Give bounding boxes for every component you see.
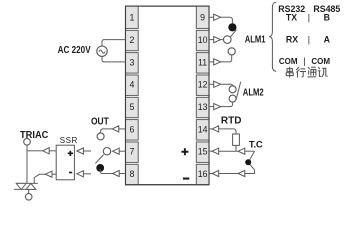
svg-text:1: 1 (130, 13, 135, 23)
svg-text:B: B (324, 12, 330, 22)
wire pin14 (209, 128, 212, 130)
wire pin11 elbow up (221, 55, 232, 62)
wire pin14 to RTD (219, 129, 236, 134)
svg-text:7: 7 (130, 147, 135, 157)
svg-text:11: 11 (198, 57, 207, 67)
svg-text:|: | (303, 56, 305, 66)
wire pin13 (209, 106, 214, 108)
polarity - inside block (183, 178, 189, 180)
arrow pin8 (113, 170, 120, 176)
ALM2 lever (236, 82, 241, 100)
arrow pin12 (214, 81, 221, 87)
terminal strip body U1 (126, 6, 210, 185)
svg-text:2: 2 (130, 35, 135, 45)
pin11 contact circle (228, 48, 235, 55)
arrow pin7 (113, 148, 120, 154)
svg-text:ALM2: ALM2 (243, 86, 264, 97)
pin numbers 9-16 (198, 13, 208, 179)
TC junction V (245, 151, 255, 173)
svg-text:5: 5 (130, 102, 135, 112)
arrow pin11 (214, 59, 221, 65)
arrow SSR minus (77, 171, 84, 177)
wire SSR plus stub (83, 150, 91, 152)
串 (286, 67, 293, 77)
svg-text:RTD: RTD (221, 116, 242, 127)
svg-text:AC 220V: AC 220V (58, 44, 92, 55)
arrow pin6 (112, 126, 119, 132)
wire pin10 (209, 39, 214, 41)
arrow pin9 (214, 14, 221, 20)
ALM1 lever (230, 30, 236, 37)
pin numbers 1-8 (130, 13, 135, 179)
relay contact circle pin7 (103, 148, 110, 155)
SSR plus (68, 151, 73, 156)
chinese label 串行通讯 (serial communication) (286, 67, 327, 77)
svg-text:15: 15 (198, 147, 208, 157)
wire pin15 to TC (219, 150, 239, 152)
wire pin3 (104, 61, 126, 63)
arrow TRIAC branch (43, 148, 50, 154)
wire dot to pin8 arrow (100, 169, 112, 174)
AC source V1 (97, 40, 107, 62)
svg-text:T.C: T.C (249, 140, 263, 151)
arrow pin16 (212, 170, 219, 176)
svg-text:8: 8 (130, 169, 135, 179)
svg-text:RX: RX (286, 34, 298, 44)
ALM2 lower circle (229, 95, 236, 102)
ALM1 pivot dot (228, 23, 236, 31)
wire branch to SSR (49, 150, 56, 152)
svg-text:10: 10 (198, 35, 208, 45)
svg-text:|: | (308, 34, 310, 44)
arrow pin13 (214, 104, 221, 110)
svg-text:A: A (324, 34, 331, 44)
svg-text:12: 12 (198, 80, 208, 90)
svg-text:OUT: OUT (91, 115, 109, 127)
svg-text:6: 6 (130, 124, 135, 134)
wire triac gate (34, 174, 45, 183)
arrow pin10 (214, 37, 221, 43)
wire SSR minus stub (83, 173, 91, 175)
wire arrow to pin8 (119, 173, 125, 175)
wire TRIAC main vertical (26, 145, 28, 183)
arrow pin14 (212, 126, 219, 132)
TC junction dot (245, 159, 251, 165)
wire gate to SSR (52, 173, 56, 175)
通 (308, 67, 316, 77)
triac Q1 symbol (14, 183, 38, 189)
svg-text:16: 16 (198, 169, 208, 179)
wire pin15 (209, 150, 212, 152)
arrow TC upper (238, 148, 245, 154)
svg-text:9: 9 (200, 13, 205, 23)
wire pin16 to TC (219, 173, 239, 175)
svg-text:SSR: SSR (60, 136, 78, 145)
wire pin12 to ALM2 upper (221, 84, 233, 86)
wire pin16 (209, 173, 212, 175)
polarity + inside block (181, 148, 188, 155)
wire pin10 to contact (221, 39, 224, 41)
svg-text:|: | (308, 12, 310, 22)
svg-text:3: 3 (130, 57, 135, 67)
arrow SSR plus (77, 148, 84, 154)
wire arrow to pin6 (119, 128, 126, 130)
wire arrow to pin7 (119, 150, 125, 152)
SSR box (56, 145, 74, 180)
讯 (318, 67, 327, 76)
ALM2 upper circle (229, 86, 236, 93)
svg-text:4: 4 (130, 80, 135, 90)
wire pin12 (209, 83, 214, 85)
arrow TC lower (238, 170, 245, 176)
wire TC upper stub (245, 150, 255, 152)
wire pin9 to ALM1 pivot (221, 17, 233, 23)
svg-text:TX: TX (286, 12, 297, 22)
TRIAC bottom terminal circle (25, 194, 32, 201)
SSR minus (69, 172, 72, 174)
wire RTD to pin15 node (235, 145, 237, 151)
relay pivot dot (96, 164, 104, 172)
wire OUT to pin6 (101, 129, 112, 133)
wire pin13 to ALM2 lower (221, 102, 233, 107)
TRIAC top terminal circle (24, 139, 31, 146)
relay lever (95, 155, 103, 164)
brace for serial comm (269, 2, 276, 71)
wire TRIAC branch to SSR+ (27, 150, 43, 152)
arrow pin15 (212, 148, 219, 154)
svg-text:COM: COM (311, 57, 330, 66)
OUT terminal circle (97, 133, 104, 140)
svg-text:13: 13 (198, 102, 208, 112)
arrow gate (45, 171, 52, 177)
wire pin9 (209, 16, 214, 18)
RTD resistor R1 (233, 134, 240, 145)
svg-text:ALM1: ALM1 (245, 34, 266, 45)
行 (297, 67, 306, 77)
wire triac cathode stub (28, 189, 30, 193)
wire pin2 (104, 39, 126, 41)
svg-text:14: 14 (198, 124, 208, 134)
svg-text:COM: COM (279, 57, 298, 66)
wire pin11 (209, 61, 214, 63)
ALM1 contact circle (224, 36, 232, 44)
